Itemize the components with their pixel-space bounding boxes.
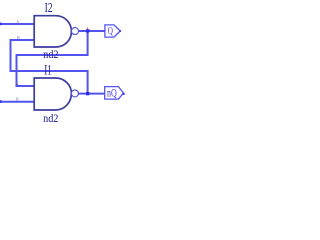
svg-text:B: B [17,35,20,40]
svg-text:A: A [16,82,19,87]
svg-text:A: A [16,19,19,24]
svg-text:I2: I2 [45,1,53,16]
svg-text:Q: Q [108,25,113,37]
svg-text:nQ: nQ [107,87,117,99]
svg-text:nd2: nd2 [43,49,58,61]
svg-text:nd2: nd2 [43,113,59,125]
svg-text:I1: I1 [44,63,52,79]
svg-text:B: B [16,96,19,101]
